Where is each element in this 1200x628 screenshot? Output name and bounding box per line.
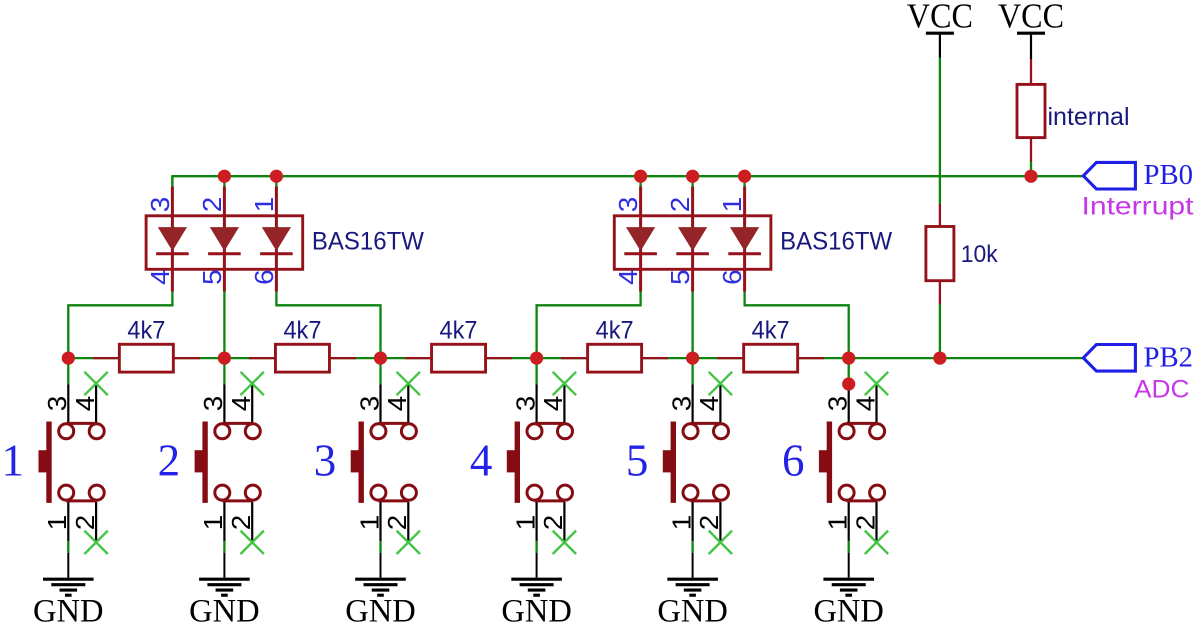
- svg-text:5: 5: [626, 436, 649, 486]
- switch S1 pin 4: [95, 384, 97, 423]
- switch S4 pin 4: [563, 384, 565, 423]
- resistor R3 4k7: [405, 357, 432, 359]
- svg-text:2: 2: [197, 197, 227, 213]
- switch S5 actuator knob: [663, 450, 676, 472]
- svg-text:GND: GND: [345, 594, 416, 628]
- svg-text:3: 3: [314, 436, 337, 486]
- no-connect X on S5 pin 2: [709, 531, 732, 554]
- net flag PB0: [1083, 162, 1135, 189]
- svg-text:4: 4: [470, 436, 493, 486]
- ground symbol GND 6: [848, 553, 850, 578]
- switch S1 pin 3: [67, 385, 69, 423]
- resistor R2 4k7: [249, 357, 276, 359]
- D1 diode 1 pin lead: [171, 187, 174, 292]
- svg-text:2: 2: [538, 515, 568, 531]
- switch S6 contact rails: [847, 422, 878, 425]
- wire junction to S1 pin 3: [67, 358, 69, 384]
- switch S6 actuator bar: [827, 422, 832, 503]
- switch S5 pin 2: [719, 502, 721, 542]
- svg-text:GND: GND: [33, 594, 104, 628]
- D1 diode 2 cathode bar: [208, 252, 241, 255]
- D2 diode 1 pin lead: [639, 187, 642, 292]
- wire S4 pin 1 to GND: [535, 541, 537, 554]
- svg-text:4: 4: [145, 269, 175, 285]
- svg-text:2: 2: [850, 515, 880, 531]
- svg-text:6: 6: [249, 269, 279, 285]
- svg-text:GND: GND: [501, 594, 572, 628]
- switch S5 contact rails: [691, 422, 722, 425]
- wire S5 pin 1 to GND: [691, 541, 693, 554]
- switch S3 pin 2: [407, 502, 409, 542]
- switch S4 pin 1: [535, 502, 537, 541]
- D1 diode 1 triangle: [158, 227, 187, 251]
- wire S2 pin 1 to GND: [223, 541, 225, 554]
- wire junction to S3 pin 3: [379, 358, 381, 384]
- VCC supply 1: [926, 32, 954, 35]
- switch S2 actuator knob: [195, 450, 208, 472]
- svg-text:5: 5: [665, 269, 695, 285]
- VCC supply 2: [1017, 32, 1045, 35]
- svg-text:1: 1: [717, 197, 747, 213]
- svg-text:4: 4: [226, 396, 256, 412]
- switch S2 contact rails: [222, 422, 253, 425]
- switch S5 pin 1: [691, 502, 693, 541]
- svg-text:2: 2: [226, 515, 256, 531]
- svg-text:1: 1: [510, 515, 540, 531]
- wire D1 pin 4 to junction left: [68, 291, 172, 359]
- no-connect X on S4 pin 2: [553, 531, 576, 554]
- svg-text:3: 3: [354, 396, 384, 412]
- D2 diode 1 cathode bar: [624, 252, 657, 255]
- svg-text:BAS16TW: BAS16TW: [780, 227, 892, 255]
- D1 diode 1 cathode bar: [156, 252, 189, 255]
- ground symbol GND 3: [380, 553, 382, 578]
- switch S5 actuator bar: [671, 422, 676, 503]
- D2 diode 1 triangle: [626, 227, 655, 251]
- svg-text:4: 4: [694, 396, 724, 412]
- svg-text:4: 4: [70, 396, 100, 412]
- switch S4 actuator bar: [515, 422, 520, 503]
- diode array D2 BAS16TW body: [614, 216, 771, 269]
- svg-text:GND: GND: [657, 594, 728, 628]
- no-connect X on S6 pin 2: [865, 531, 888, 554]
- svg-text:PB2: PB2: [1144, 342, 1194, 373]
- switch S1 pin 2: [95, 502, 97, 542]
- junction on PB2 net x=536.6: [530, 352, 543, 365]
- svg-text:2: 2: [694, 515, 724, 531]
- D2 diode 2 pin lead: [691, 187, 694, 292]
- wire stub to D2 pin 2: [691, 176, 693, 190]
- junction on PB2 net x=224.4: [218, 352, 231, 365]
- junction on PB2 net x=848.7: [842, 352, 855, 365]
- svg-text:internal: internal: [1048, 103, 1130, 131]
- svg-text:VCC: VCC: [998, 0, 1064, 36]
- svg-text:GND: GND: [813, 594, 884, 628]
- switch S4 pin 3: [535, 385, 537, 423]
- svg-text:3: 3: [510, 396, 540, 412]
- svg-text:4: 4: [382, 396, 412, 412]
- svg-text:3: 3: [613, 197, 643, 213]
- switch S3 actuator knob: [351, 450, 364, 472]
- svg-text:2: 2: [665, 197, 695, 213]
- svg-text:4k7: 4k7: [596, 317, 634, 345]
- switch S2 pin 2: [251, 502, 253, 542]
- switch S5 contact circles: [683, 424, 698, 439]
- no-connect X on S3 pin 2: [397, 531, 420, 554]
- switch S3 pin 4: [407, 384, 409, 423]
- wire top net PB0 horizontal: [172, 175, 1083, 177]
- svg-text:1: 1: [198, 515, 228, 531]
- wire stub to D1 pin 2: [223, 176, 225, 190]
- switch S2 contact circles: [215, 424, 230, 439]
- D2 diode 3 cathode bar: [728, 252, 761, 255]
- wire D2 pin 6 to junction right: [745, 291, 849, 359]
- net flag PB2: [1083, 345, 1135, 372]
- resistor R5 4k7: [717, 357, 744, 359]
- svg-text:4: 4: [613, 269, 643, 285]
- svg-text:4: 4: [538, 396, 568, 412]
- switch S4 contact circles: [527, 424, 542, 439]
- wire S6 pin 1 to GND: [848, 541, 850, 554]
- junction on PB0 net x=276.4: [270, 170, 283, 183]
- svg-text:ADC: ADC: [1134, 375, 1190, 403]
- switch S4 pin 2: [563, 502, 565, 542]
- no-connect X on S5 pin 4: [709, 372, 732, 395]
- switch S2 actuator bar: [202, 422, 207, 503]
- svg-text:3: 3: [198, 396, 228, 412]
- svg-text:6: 6: [717, 269, 747, 285]
- switch S6 pin 1: [848, 502, 850, 541]
- svg-text:6: 6: [782, 436, 805, 486]
- no-connect X on S1 pin 4: [84, 372, 107, 395]
- resistor R1 4k7: [93, 357, 120, 359]
- svg-text:2: 2: [158, 436, 181, 486]
- no-connect X on S1 pin 2: [84, 531, 107, 554]
- svg-text:3: 3: [823, 396, 853, 412]
- svg-text:5: 5: [197, 269, 227, 285]
- D1 diode 3 triangle: [262, 227, 291, 251]
- junction on S6 pin 3 stub: [842, 377, 855, 390]
- switch S1 pin 1: [67, 502, 69, 541]
- svg-text:1: 1: [354, 515, 384, 531]
- switch S5 pin 3: [691, 385, 693, 423]
- svg-text:4k7: 4k7: [440, 317, 478, 345]
- wire internal resistor to PB0 net: [1030, 161, 1032, 177]
- wire S3 pin 1 to GND: [379, 541, 381, 554]
- switch S3 pin 1: [379, 502, 381, 541]
- wire junction to S2 pin 3: [223, 358, 225, 384]
- wire stub to D1 pin 3: [171, 176, 173, 190]
- switch S3 contact rails: [378, 422, 409, 425]
- D2 diode 3 pin lead: [743, 187, 746, 292]
- no-connect X on S2 pin 4: [241, 372, 264, 395]
- wire D1 pin 6 to junction right: [276, 291, 380, 359]
- wire D2 pin 5 down to junction: [691, 291, 693, 359]
- wire stub to D1 pin 1: [275, 176, 277, 190]
- junction on PB2 net x=692.6: [686, 352, 699, 365]
- D1 diode 2 triangle: [210, 227, 239, 251]
- switch S4 actuator knob: [507, 450, 520, 472]
- svg-text:1: 1: [2, 436, 25, 486]
- D2 diode 3 triangle: [730, 227, 759, 251]
- D1 diode 3 cathode bar: [260, 252, 293, 255]
- svg-text:2: 2: [382, 515, 412, 531]
- svg-text:4k7: 4k7: [752, 317, 790, 345]
- svg-text:4: 4: [850, 396, 880, 412]
- D2 diode 2 cathode bar: [676, 252, 709, 255]
- no-connect X on S2 pin 2: [241, 531, 264, 554]
- wire D2 pin 4 to junction left: [537, 291, 641, 359]
- ground symbol GND 4: [536, 553, 538, 578]
- svg-text:2: 2: [70, 515, 100, 531]
- resistor R4 4k7: [561, 357, 588, 359]
- switch S3 contact circles: [371, 424, 386, 439]
- junction on PB2 net x=380.5: [374, 352, 387, 365]
- switch S5 pin 4: [719, 384, 721, 423]
- switch S1 actuator bar: [46, 422, 51, 503]
- switch S6 contact circles: [839, 424, 854, 439]
- switch S2 pin 1: [223, 502, 225, 541]
- no-connect X on S6 pin 4: [865, 372, 888, 395]
- svg-text:3: 3: [666, 396, 696, 412]
- ground symbol GND 1: [67, 553, 69, 578]
- wire stub to D2 pin 1: [743, 176, 745, 190]
- svg-text:Interrupt: Interrupt: [1082, 192, 1194, 220]
- junction on PB0 net x=692.6: [686, 170, 699, 183]
- svg-text:BAS16TW: BAS16TW: [312, 227, 424, 255]
- diode array D1 BAS16TW body: [146, 216, 303, 269]
- switch S3 pin 3: [379, 385, 381, 423]
- D2 diode 2 triangle: [678, 227, 707, 251]
- wire junction to S4 pin 3: [535, 358, 537, 384]
- svg-text:VCC: VCC: [907, 0, 973, 36]
- no-connect X on S4 pin 4: [553, 372, 576, 395]
- resistor R7 internal: [1030, 59, 1032, 84]
- D1 diode 2 pin lead: [223, 187, 226, 292]
- svg-text:GND: GND: [189, 594, 260, 628]
- svg-text:10k: 10k: [961, 241, 999, 268]
- switch S2 pin 3: [223, 385, 225, 423]
- svg-text:3: 3: [42, 396, 72, 412]
- junction on PB2 net x=68.3: [62, 352, 75, 365]
- switch S1 contact circles: [59, 424, 74, 439]
- wire junction to S6 pin 3: [848, 358, 850, 384]
- svg-text:4k7: 4k7: [127, 317, 165, 345]
- svg-text:1: 1: [42, 515, 72, 531]
- wire VCC#1 down to 10k and PB2 net: [939, 57, 941, 205]
- switch S1 actuator knob: [39, 450, 52, 472]
- ground symbol GND 2: [223, 553, 225, 578]
- junction on PB0 net x=744.6: [738, 170, 751, 183]
- switch S6 pin 3: [848, 385, 850, 423]
- ground symbol GND 5: [692, 553, 694, 578]
- junction on PB0 net x=640.6: [634, 170, 647, 183]
- junction on PB0 net x=1031.0: [1024, 170, 1037, 183]
- wire top net corner down to D1 pin 3: [171, 175, 173, 190]
- wire chain net PB2 horizontal: [68, 357, 1083, 359]
- resistor R6 10k: [939, 204, 941, 227]
- svg-text:1: 1: [666, 515, 696, 531]
- switch S3 actuator bar: [359, 422, 364, 503]
- svg-text:1: 1: [249, 197, 279, 213]
- switch S1 contact rails: [66, 422, 97, 425]
- junction on PB0 net x=224.4: [218, 170, 231, 183]
- D1 diode 3 pin lead: [275, 187, 278, 292]
- svg-text:1: 1: [823, 515, 853, 531]
- switch S6 pin 4: [875, 384, 877, 423]
- svg-text:PB0: PB0: [1144, 160, 1194, 191]
- junction on PB2 net x=939.9: [933, 352, 946, 365]
- switch S6 pin 2: [875, 502, 877, 542]
- svg-text:3: 3: [145, 197, 175, 213]
- wire D1 pin 5 down to junction: [223, 291, 225, 359]
- wire junction to S5 pin 3: [691, 358, 693, 384]
- no-connect X on S3 pin 4: [397, 372, 420, 395]
- wire S1 pin 1 to GND: [67, 541, 69, 554]
- switch S4 contact rails: [535, 422, 566, 425]
- svg-text:4k7: 4k7: [283, 317, 321, 345]
- switch S2 pin 4: [251, 384, 253, 423]
- wire stub to D2 pin 3: [639, 176, 641, 190]
- switch S6 actuator knob: [819, 450, 832, 472]
